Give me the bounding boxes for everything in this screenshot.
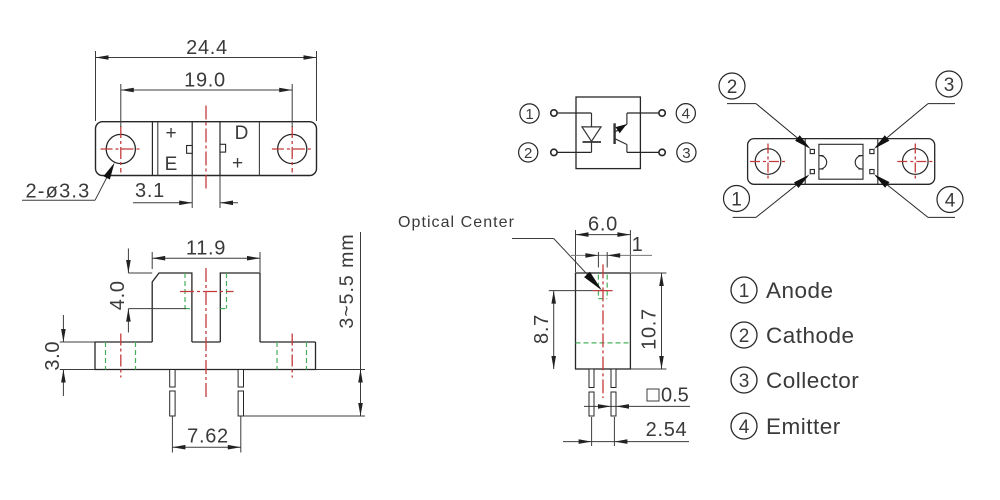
- label + (detector polarity): [232, 153, 243, 174]
- label 2-dia3.3 with leader: [22, 161, 118, 202]
- svg-text:0.5: 0.5: [661, 385, 689, 407]
- svg-text:2: 2: [727, 77, 738, 98]
- central slot block: [819, 144, 863, 179]
- side view centerline (red): [602, 264, 604, 398]
- dimension 7.62: [172, 416, 240, 453]
- emitter arrow Q1: [616, 124, 627, 133]
- svg-text:1: 1: [739, 281, 750, 302]
- front view pin left: [170, 370, 175, 417]
- dimension 3.0: [60, 315, 95, 396]
- wire cathode: [557, 151, 591, 153]
- svg-text:3: 3: [944, 75, 955, 96]
- dimension 4.0: [128, 249, 186, 333]
- front view tower right pillar: [220, 273, 260, 342]
- pin number circle 4: [676, 104, 695, 123]
- emitter dome left: [819, 156, 827, 169]
- hidden window right (green): [220, 273, 226, 309]
- svg-text:1: 1: [731, 190, 742, 211]
- mounting hole left: [106, 134, 135, 163]
- svg-text:6.0: 6.0: [588, 214, 618, 236]
- svg-text:1: 1: [632, 234, 644, 256]
- leader callout 3: [872, 71, 962, 152]
- svg-text:Emitter: Emitter: [766, 414, 841, 439]
- hidden mounting hole lines right (green): [277, 342, 307, 370]
- terminal pin 4: [659, 110, 665, 116]
- label + (emitter polarity): [165, 123, 176, 144]
- svg-text:2: 2: [739, 326, 750, 347]
- svg-text:3~5.5 mm: 3~5.5 mm: [336, 233, 358, 328]
- top view inner wall line a: [151, 122, 153, 176]
- bottom view mounting hole left: [755, 149, 781, 175]
- mounting hole right: [278, 134, 307, 163]
- dimension 6.0: [576, 230, 631, 272]
- svg-text:1: 1: [525, 106, 533, 123]
- wire collector out: [627, 151, 659, 153]
- dimension 8.7: [549, 291, 593, 369]
- svg-text:+: +: [232, 153, 243, 174]
- inner wall left: [804, 139, 806, 185]
- front view tower left pillar: [152, 273, 192, 342]
- dimension 0.5 square pin: [584, 389, 690, 406]
- svg-text:4.0: 4.0: [107, 280, 129, 310]
- pin number circle 3: [677, 143, 696, 162]
- svg-text:Anode: Anode: [766, 278, 834, 303]
- svg-text:2.54: 2.54: [646, 419, 688, 441]
- svg-text:Cathode: Cathode: [766, 323, 855, 348]
- svg-text:10.7: 10.7: [639, 308, 661, 350]
- hole centerline right (red): [291, 334, 293, 378]
- svg-text:Collector: Collector: [766, 368, 859, 393]
- side view pin left: [589, 369, 594, 416]
- svg-text:3.1: 3.1: [135, 180, 165, 202]
- label E (emitter): [165, 154, 178, 175]
- dimension 11.9: [152, 252, 260, 272]
- bottom view body outline: [748, 139, 935, 185]
- side view pin right: [611, 369, 616, 416]
- LED D1: [582, 113, 601, 152]
- terminal pin 3: [659, 149, 665, 155]
- hidden led window (green): [598, 275, 607, 299]
- top view inner wall line b: [157, 122, 159, 176]
- detector dome right: [855, 156, 863, 169]
- crosshair right hole (red): [897, 144, 933, 180]
- front view flange outline: [95, 342, 316, 370]
- hidden window left (green): [185, 273, 192, 309]
- dimension 19.0: [121, 84, 292, 127]
- svg-text:3: 3: [682, 145, 690, 162]
- pin square 4 (bottom-right): [870, 170, 874, 174]
- side view body: [576, 273, 631, 369]
- leader callout 4: [872, 171, 963, 217]
- svg-text:24.4: 24.4: [186, 37, 228, 59]
- inner wall right: [877, 139, 879, 185]
- dimension 1 (window width): [571, 252, 652, 268]
- optical axis (red): [593, 290, 613, 292]
- top view slot right wall: [219, 122, 221, 176]
- svg-text:4: 4: [945, 191, 956, 212]
- phototransistor Q1: [615, 113, 627, 152]
- svg-text:+: +: [165, 123, 176, 144]
- svg-text:11.9: 11.9: [186, 238, 226, 260]
- pin number circle 2: [519, 143, 538, 162]
- svg-text:4: 4: [739, 417, 750, 438]
- optical center label with leader: [398, 214, 602, 291]
- centerline crosshair left hole: [101, 126, 142, 173]
- svg-text:4: 4: [682, 106, 690, 123]
- top view emitter window notch: [187, 146, 193, 154]
- pin number circle 1: [520, 104, 539, 123]
- svg-text:19.0: 19.0: [184, 70, 226, 92]
- svg-text:7.62: 7.62: [187, 426, 229, 448]
- svg-text:3: 3: [739, 371, 750, 392]
- leader callout 2: [719, 73, 813, 152]
- svg-text:D: D: [235, 123, 249, 144]
- dimension 3~5.5 mm: [244, 232, 366, 416]
- legend 1 Anode: [731, 277, 834, 303]
- label D (detector): [235, 123, 249, 144]
- terminal pin 1: [551, 110, 557, 116]
- centerline crosshair right hole: [272, 126, 313, 173]
- wire emitter out: [627, 112, 659, 114]
- slot centerline vertical: [205, 106, 207, 191]
- legend 3 Collector: [731, 367, 859, 393]
- pin square 3 (top-right): [870, 149, 874, 153]
- front view vertical centerline (red): [205, 268, 207, 397]
- leader callout 1: [724, 172, 812, 218]
- opto-isolator box U1: [576, 97, 640, 169]
- svg-text:2-ø3.3: 2-ø3.3: [25, 181, 90, 203]
- top view slot left wall: [191, 122, 193, 176]
- hole centerline left (red): [120, 334, 122, 378]
- dimension 3.1: [133, 176, 238, 208]
- svg-text:E: E: [165, 154, 178, 175]
- pin square 1 (bottom-left): [810, 170, 814, 174]
- dimension 10.7: [630, 273, 666, 369]
- pin square 2 (top-left): [810, 149, 814, 153]
- dimension 2.54: [563, 417, 689, 446]
- svg-text:2: 2: [524, 145, 532, 162]
- hidden mounting hole lines left (green): [106, 342, 136, 370]
- terminal pin 2: [551, 149, 557, 155]
- svg-text:8.7: 8.7: [531, 314, 553, 344]
- front view pin right: [238, 370, 243, 417]
- legend 2 Cathode: [731, 322, 855, 348]
- svg-text:3.0: 3.0: [42, 341, 64, 371]
- bottom view mounting hole right: [903, 149, 929, 175]
- top view body outline: [96, 122, 317, 176]
- dimension 24.4: [96, 51, 317, 121]
- top view inner wall line c: [258, 122, 260, 176]
- front view optical axis line (red): [180, 291, 234, 293]
- hidden flange line (green): [576, 342, 631, 344]
- svg-text:Optical Center: Optical Center: [398, 214, 515, 231]
- legend 4 Emitter: [731, 413, 841, 439]
- top view detector window notch: [220, 144, 226, 152]
- wire anode: [557, 112, 591, 114]
- crosshair left hole (red): [750, 144, 786, 180]
